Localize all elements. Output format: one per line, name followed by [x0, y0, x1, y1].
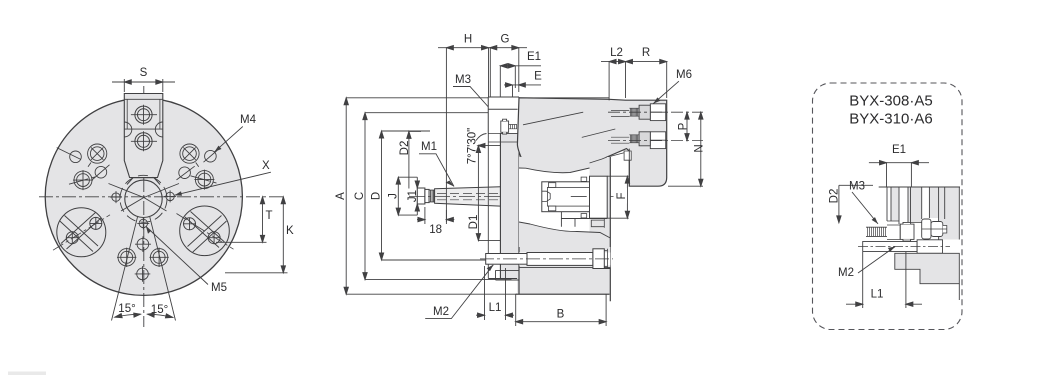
svg-text:A: A — [335, 192, 347, 200]
svg-text:M4: M4 — [240, 114, 257, 126]
bolt centerlines — [608, 112, 703, 140]
center bore — [120, 175, 167, 222]
svg-text:18: 18 — [429, 224, 442, 236]
dimension T — [216, 197, 267, 243]
jaw screw top — [131, 105, 157, 125]
svg-text:P: P — [678, 122, 690, 130]
svg-text:H: H — [464, 34, 472, 46]
svg-text:G: G — [501, 34, 510, 46]
bore screw bottom — [137, 217, 149, 229]
svg-text:M2: M2 — [838, 267, 854, 279]
svg-text:7°7'30": 7°7'30" — [467, 128, 479, 164]
bore screw right — [164, 190, 176, 202]
dimension E — [504, 83, 541, 122]
svg-text:E: E — [534, 71, 542, 83]
dimension D1 vertical line — [476, 143, 505, 240]
dimension F — [607, 176, 629, 218]
piston cavity white — [519, 168, 590, 232]
detail body lower step — [895, 253, 960, 300]
tapped hole upper-right M4 type — [180, 144, 199, 167]
svg-text:K: K — [286, 225, 294, 237]
dimension P — [685, 112, 689, 140]
detail nut — [922, 219, 947, 239]
bottom pair screw left — [117, 248, 136, 267]
svg-text:E1: E1 — [892, 144, 906, 156]
M2 bolt rod — [480, 249, 613, 269]
svg-text:X: X — [262, 160, 270, 172]
svg-text:L1: L1 — [871, 289, 884, 301]
dimension A vertical line — [344, 98, 610, 294]
svg-text:D: D — [371, 192, 383, 200]
body cavity contours — [519, 222, 610, 238]
svg-text:E1: E1 — [527, 51, 541, 63]
bottom small screw 2 — [135, 266, 151, 282]
top jaw body — [124, 94, 163, 178]
svg-text:M2: M2 — [433, 306, 449, 318]
dimension D vertical line — [379, 131, 492, 260]
svg-text:M3: M3 — [455, 74, 471, 86]
svg-text:B: B — [557, 309, 565, 321]
horizontal centerline — [39, 196, 285, 198]
dimension L2 — [601, 59, 626, 100]
15 deg line right — [150, 217, 176, 321]
svg-text:M1: M1 — [421, 141, 437, 153]
svg-text:M6: M6 — [676, 69, 692, 81]
dimension J1 vertical line — [415, 177, 419, 215]
detail dimension D2 — [837, 185, 873, 223]
jaw block details — [624, 104, 666, 186]
svg-text:M5: M5 — [211, 282, 227, 294]
chuck face circle — [45, 98, 242, 295]
dimension B — [516, 294, 606, 326]
dimension G — [490, 46, 527, 93]
svg-text:M3: M3 — [849, 181, 865, 193]
dimension R — [626, 59, 667, 98]
15 deg arcs with arrows — [115, 313, 173, 318]
dimension 18 — [417, 207, 454, 224]
blob inner jaw lines — [523, 112, 629, 161]
body mid block — [519, 157, 610, 301]
label F on white box — [614, 188, 628, 204]
bottom adapter block — [496, 247, 611, 294]
M6 bolt bottom — [611, 132, 650, 146]
svg-text:T: T — [266, 210, 273, 222]
taper angle leader arc — [476, 134, 487, 141]
tapped hole upper-left M4 type — [88, 144, 107, 167]
svg-text:R: R — [642, 47, 650, 59]
bottom small screw 1 — [135, 236, 151, 252]
body bottom band gray — [519, 247, 610, 268]
radial lines at bore — [109, 184, 180, 212]
svg-text:D1: D1 — [468, 215, 480, 230]
svg-text:BYX‑308·A5: BYX‑308·A5 — [849, 93, 932, 110]
svg-text:L1: L1 — [489, 302, 502, 314]
detail body columns — [879, 187, 960, 240]
svg-text:15°: 15° — [151, 304, 168, 316]
small hole mid-left slashed — [93, 165, 110, 180]
lower-left master jaw — [53, 208, 110, 257]
detail dimension E1 — [869, 161, 929, 187]
bolt M3 in flange — [501, 119, 517, 134]
adapter flange plate — [488, 97, 519, 279]
dimension L1 — [476, 266, 514, 320]
side screw left — [69, 170, 97, 190]
small hole far-right M4 — [204, 150, 218, 162]
jaw screw lower — [131, 131, 157, 151]
lower-right master jaw — [177, 206, 234, 256]
small hole far-left slashed — [57, 148, 82, 163]
wedge plunger — [561, 212, 607, 228]
watermark bar bottom-left — [8, 372, 46, 375]
piston assembly — [542, 176, 607, 218]
15 deg line left — [112, 217, 138, 321]
svg-text:S: S — [140, 67, 148, 79]
bore screw left — [110, 191, 122, 203]
dimension K — [225, 197, 288, 273]
svg-text:D2: D2 — [829, 189, 841, 204]
dimension H — [438, 46, 497, 223]
svg-text:J: J — [388, 193, 400, 199]
side screw right — [191, 170, 219, 190]
dimension N — [668, 112, 703, 186]
svg-text:C: C — [354, 192, 366, 200]
M6 bolt top — [611, 105, 650, 119]
chuck body ear blob and jaw block — [517, 98, 666, 186]
dimension C vertical line — [363, 113, 518, 280]
svg-text:BYX‑310·A6: BYX‑310·A6 — [849, 111, 932, 128]
dimension S — [112, 79, 175, 92]
dimension J vertical line — [396, 177, 417, 215]
M2 rod channel — [519, 253, 610, 266]
svg-text:F: F — [616, 192, 628, 199]
vertical centerline — [143, 86, 145, 327]
svg-text:N: N — [694, 144, 706, 152]
stud centerline — [409, 195, 620, 197]
dashed border — [813, 83, 963, 330]
draw stud M1 head — [417, 188, 434, 204]
dimension D2 arrow — [407, 131, 421, 188]
dimension E1 top — [500, 64, 541, 110]
detail M2 bolt — [858, 240, 950, 254]
draw stud M1 rod with taper — [435, 186, 541, 207]
detail M3 bolt — [866, 222, 914, 241]
svg-text:15°: 15° — [118, 303, 135, 315]
detail dimension L1 — [846, 252, 922, 308]
svg-text:D2: D2 — [399, 141, 411, 156]
svg-text:L2: L2 — [610, 47, 623, 59]
bottom pair screw right — [149, 248, 168, 267]
small hole mid-right slashed — [177, 166, 195, 180]
